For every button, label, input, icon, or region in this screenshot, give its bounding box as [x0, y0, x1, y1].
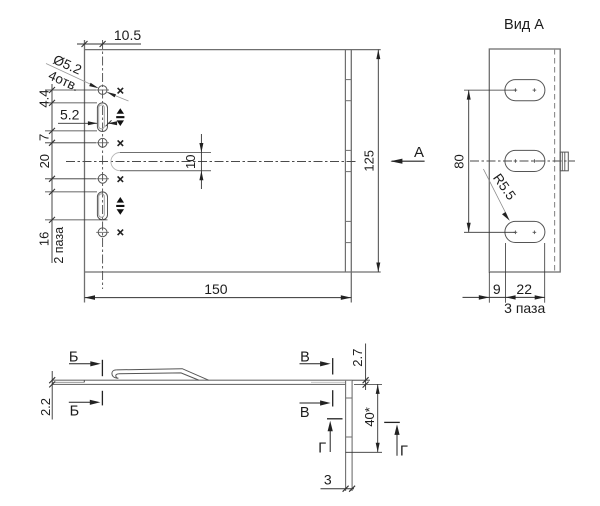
VIEW-A: [451, 17, 575, 316]
leg left edge: [345, 381, 347, 491]
strip bottom edge: [52, 383, 345, 385]
svg-text:10: 10: [183, 154, 198, 168]
flange slot 2: [505, 150, 545, 171]
slot cap centers: [514, 88, 537, 234]
svg-text:Вид А: Вид А: [504, 17, 544, 33]
x mark hole2: [118, 140, 124, 146]
strip top edge: [52, 379, 352, 381]
svg-text:В: В: [300, 405, 310, 421]
dim 40*: [354, 383, 382, 385]
plate outline top edge: [85, 49, 381, 51]
dim 2.2: [51, 371, 53, 420]
svg-text:А: А: [414, 144, 424, 161]
svg-text:22: 22: [516, 281, 532, 297]
bend dashed line: [554, 49, 556, 272]
dim 7: [49, 128, 55, 134]
hole 4: [98, 228, 107, 237]
plate outline bottom edge: [85, 271, 381, 273]
hole 3: [98, 174, 107, 183]
svg-text:125: 125: [361, 150, 376, 172]
flange slot 3: [505, 221, 545, 242]
dim 10 u-slot: [200, 134, 202, 189]
x mark hole1: [118, 88, 124, 94]
svg-text:5.2: 5.2: [60, 106, 80, 122]
lanced tab profile: [116, 369, 208, 381]
dim 80: [468, 90, 470, 232]
extension lines left: [45, 90, 108, 220]
horizontal centerline view A: [470, 160, 575, 162]
lanced tab protrusion edge-on: [560, 152, 568, 171]
dim 4.4: [51, 84, 53, 263]
svg-text:Б: Б: [69, 349, 79, 365]
svg-text:40*: 40*: [362, 407, 377, 427]
svg-text:2.7: 2.7: [350, 349, 365, 367]
dim 5.2: [58, 122, 97, 124]
section G-G left: [327, 418, 343, 420]
svg-text:3 паза: 3 паза: [504, 300, 545, 316]
dim 20: [49, 176, 55, 182]
lip step tick: [83, 380, 85, 382]
plate outline left edge: [84, 40, 86, 303]
horizontal centerline: [66, 161, 358, 163]
hole 2: [98, 138, 107, 147]
dim 2.7: [365, 344, 367, 391]
svg-text:16: 16: [37, 232, 52, 246]
slot 1 (vertical): [97, 103, 107, 132]
lip underside line: [52, 381, 84, 383]
svg-text:Г: Г: [400, 444, 408, 460]
dim 3: [321, 488, 355, 490]
dim 10.5: [77, 43, 141, 45]
SIDE-VIEW: [38, 344, 408, 492]
flange slot edge ticks on right edge: [345, 80, 351, 243]
svg-text:Б: Б: [70, 403, 80, 419]
svg-text:20: 20: [37, 154, 52, 168]
leg right edge: [351, 381, 353, 491]
forming symbol slot2: [116, 197, 124, 215]
bottom dims 9 and 22: [505, 243, 507, 303]
label D5.2 4 holes: [44, 52, 88, 94]
slot 2 (vertical): [97, 192, 107, 220]
vertical centerline through holes: [102, 40, 104, 289]
section G-G right: [384, 421, 400, 423]
lanced U-slot: [120, 152, 211, 154]
dim 125: [377, 50, 379, 272]
bend line inner right: [344, 50, 346, 272]
forming symbol slot1: [116, 108, 124, 126]
x mark hole3: [118, 176, 124, 182]
leader to hole 1: [46, 64, 96, 87]
svg-text:10.5: 10.5: [114, 27, 141, 43]
svg-text:4.4: 4.4: [36, 90, 51, 108]
svg-text:Г: Г: [318, 440, 326, 456]
faint inner line right portion: [311, 381, 345, 383]
svg-text:80: 80: [451, 154, 466, 168]
hole 1: [98, 86, 107, 95]
leg slot ticks: [346, 397, 353, 399]
plate right edge: [350, 50, 352, 303]
svg-text:9: 9: [493, 281, 501, 297]
svg-text:2.2: 2.2: [38, 398, 53, 416]
svg-text:В: В: [300, 349, 310, 365]
flange slot 1: [505, 80, 545, 101]
svg-text:2 паза: 2 паза: [52, 227, 66, 264]
MAIN-VIEW: [36, 27, 424, 303]
view arrow A: [392, 160, 425, 162]
leg bottom / extension: [346, 451, 382, 453]
x mark hole4: [118, 230, 124, 236]
svg-text:150: 150: [204, 281, 228, 297]
flange outline: [489, 49, 560, 272]
svg-text:3: 3: [324, 472, 332, 488]
dim 16: [49, 189, 55, 195]
svg-text:7: 7: [37, 134, 52, 141]
dim 150: [85, 297, 352, 299]
